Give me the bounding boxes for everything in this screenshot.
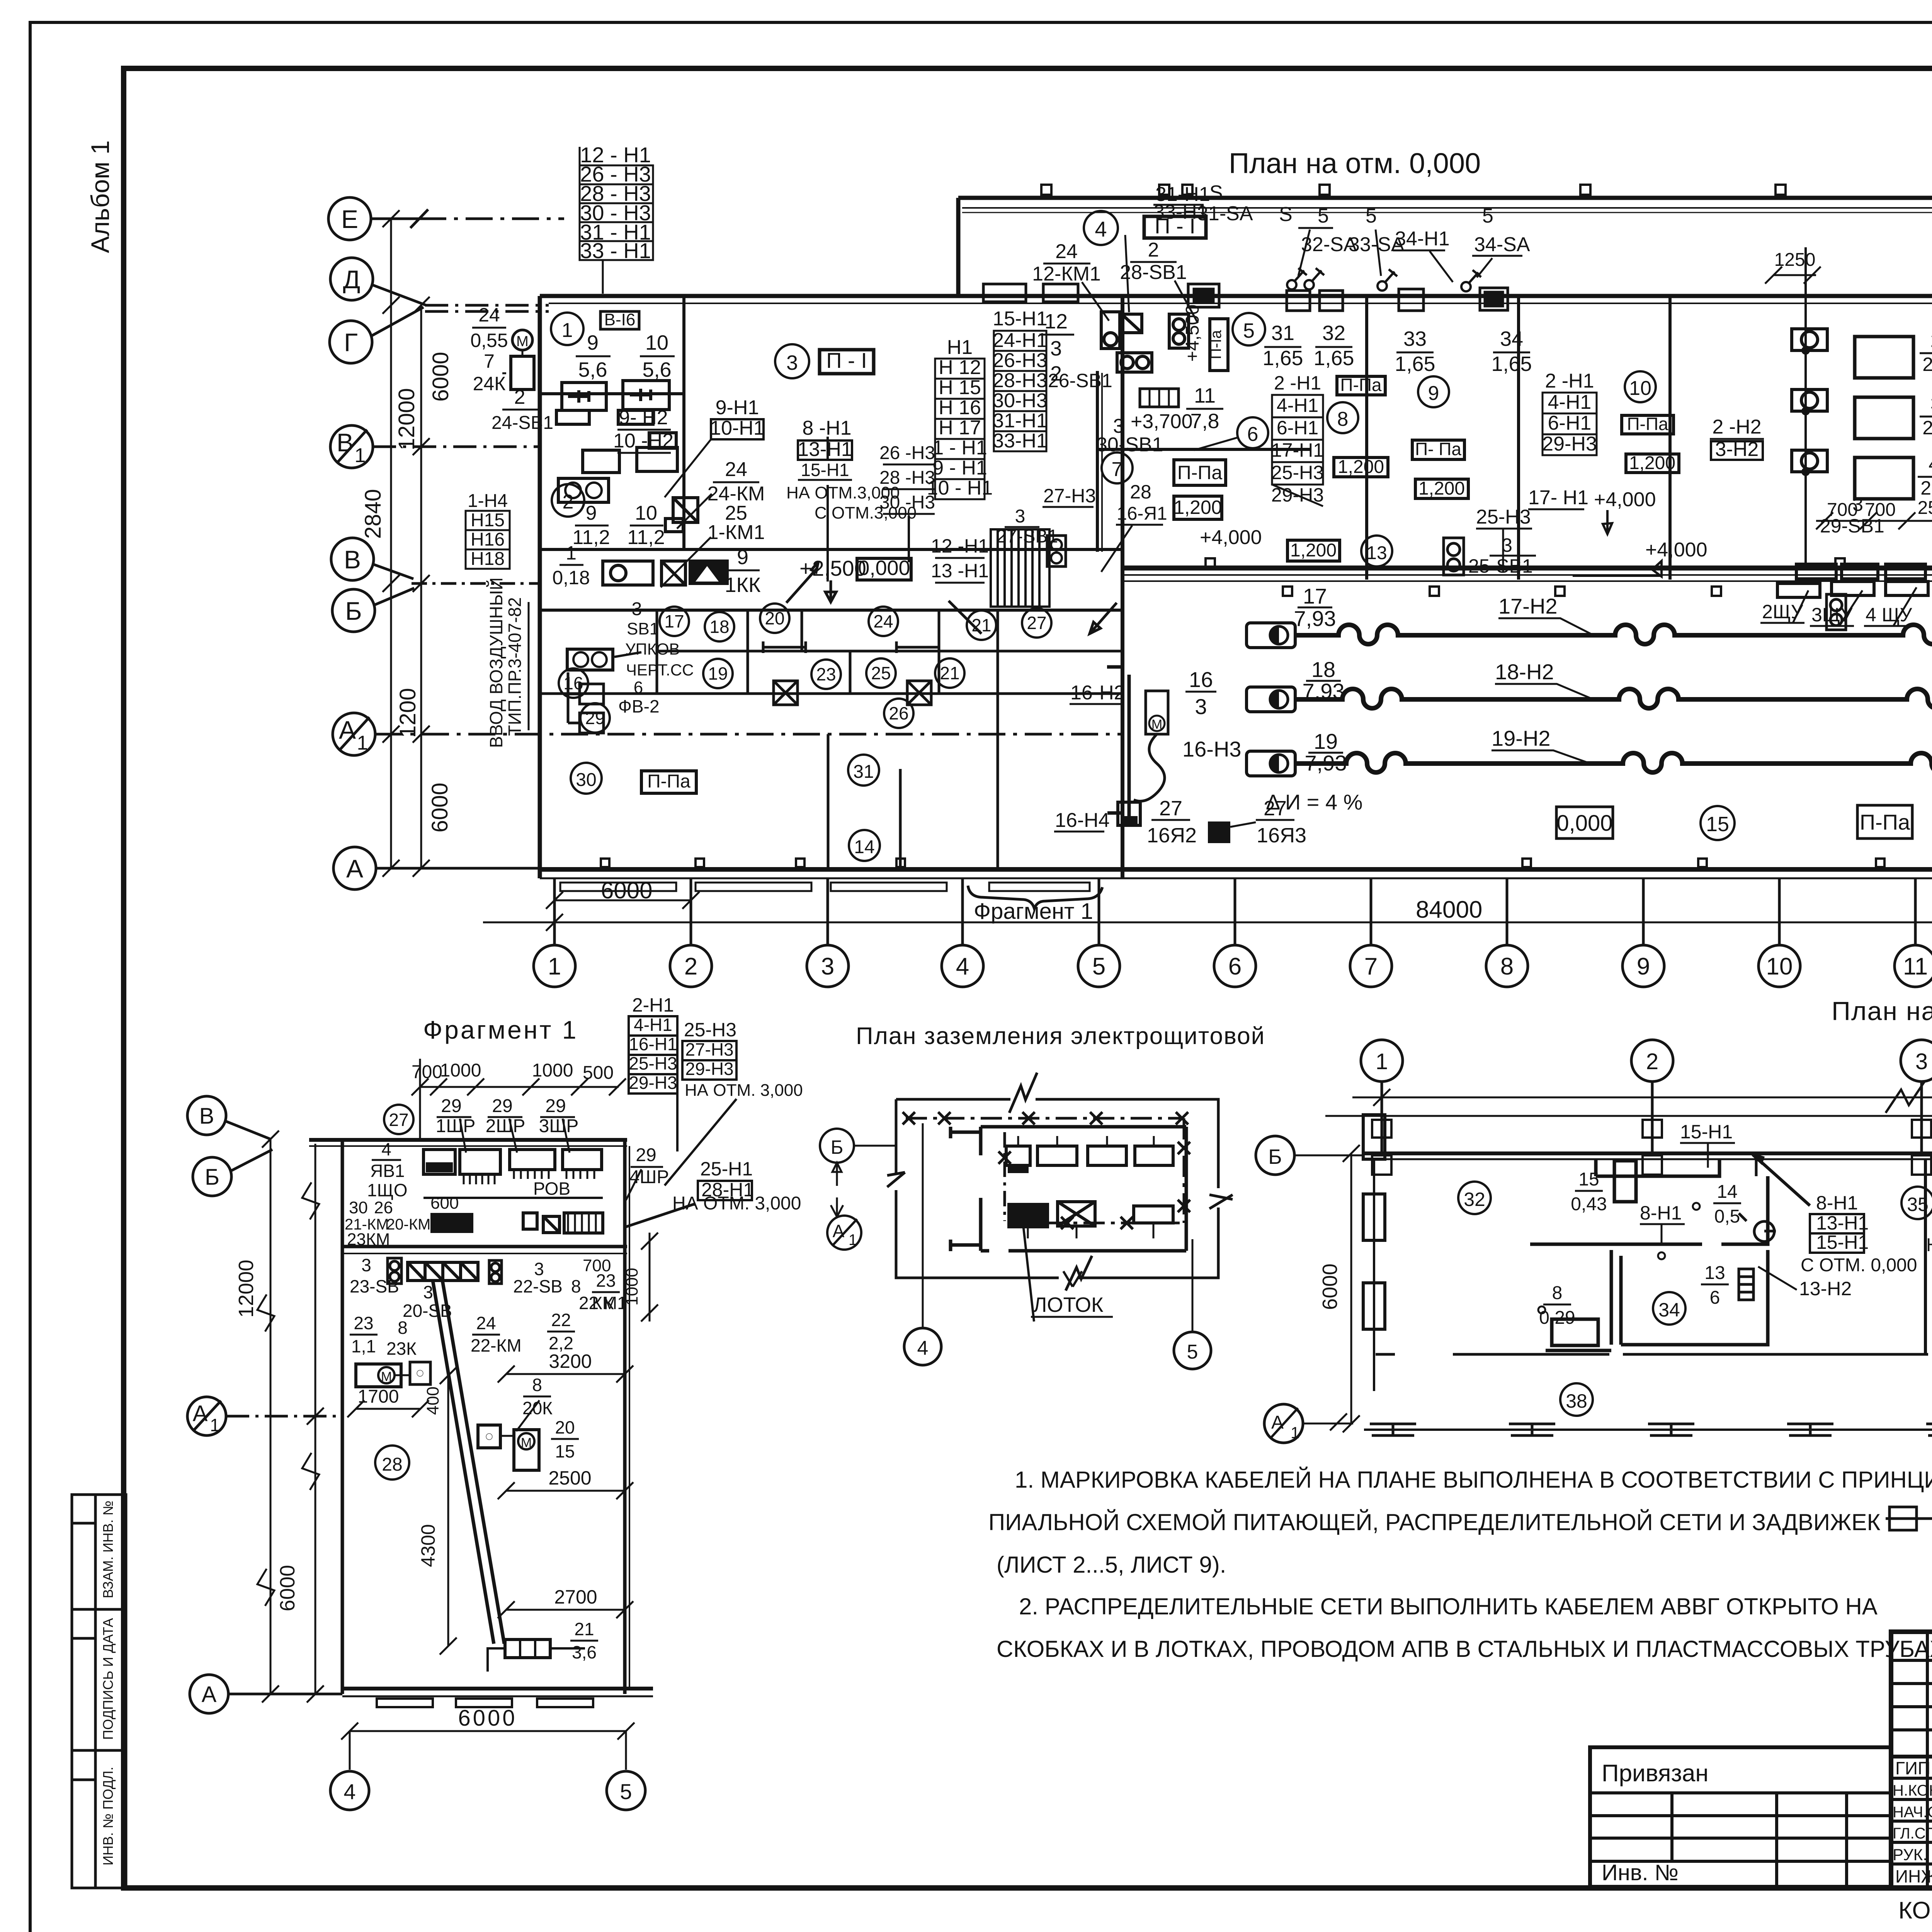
wall: partition x4322: [1668, 296, 1672, 580]
plan3 room 38: [1560, 1383, 1593, 1416]
grounding axis А/1 left: [827, 1216, 861, 1250]
svg-text:9: 9: [737, 546, 748, 569]
1,200 box room8: [1334, 457, 1388, 477]
axis В: [331, 538, 374, 580]
svg-text:4ШР: 4ШР: [629, 1167, 669, 1187]
svg-text:3,6: 3,6: [572, 1642, 597, 1662]
svg-text:1700: 1700: [358, 1386, 399, 1407]
fragment hatch block: [408, 1262, 478, 1281]
svg-text:10: 10: [645, 331, 668, 354]
plan3 lamp symbol: [1739, 1213, 1776, 1242]
svg-text:14: 14: [854, 837, 874, 857]
dim row 700 700 2500: [1827, 496, 1932, 520]
conveyor 17: [1295, 625, 1932, 644]
svg-text:15-Н1: 15-Н1: [993, 308, 1048, 330]
svg-text:29-Н3: 29-Н3: [1542, 433, 1597, 455]
svg-text:1. МАРКИРОВКА КАБЕЛЕЙ НА ПЛАНЕ: 1. МАРКИРОВКА КАБЕЛЕЙ НА ПЛАНЕ ВЫПОЛНЕНА…: [1015, 1467, 1932, 1493]
svg-text:4-Н1: 4-Н1: [1277, 395, 1318, 416]
plan3 Б wall: [1362, 1151, 1932, 1155]
plan3 Б axis circle: [1256, 1136, 1294, 1175]
svg-text:3: 3: [786, 351, 798, 374]
svg-text:В: В: [199, 1104, 214, 1129]
fragment equipment room (top): [423, 1150, 603, 1233]
conveyor labels: [1294, 584, 1347, 775]
room 31: [848, 755, 879, 786]
grounding top row cabinets: [1006, 1136, 1173, 1173]
svg-text:29-Н3: 29-Н3: [685, 1059, 733, 1079]
vertical leaders mid plan: [828, 437, 909, 582]
columns of left section: [1926, 1632, 1929, 1888]
wall: vertical x4983: [1924, 1159, 1927, 1354]
fragment bottom axis circles: [330, 1771, 369, 1810]
svg-text:2: 2: [563, 491, 574, 513]
svg-text:400: 400: [423, 1386, 442, 1415]
svg-text:3: 3: [1852, 493, 1863, 515]
svg-text:П - I: П - I: [1155, 214, 1196, 238]
fractions room 11: [1920, 330, 1932, 499]
svg-text:6000: 6000: [458, 1706, 517, 1731]
fragment bottom dim 6000: [341, 1723, 634, 1770]
svg-text:Н 17: Н 17: [939, 417, 981, 439]
svg-text:5: 5: [1092, 953, 1105, 980]
svg-text:16-Н3: 16-Н3: [1182, 737, 1242, 761]
svg-text:1КК: 1КК: [725, 573, 761, 597]
svg-text:А: А: [202, 1682, 217, 1707]
svg-text:22-SВ: 22-SВ: [513, 1276, 563, 1296]
svg-text:6000: 6000: [427, 782, 452, 832]
svg-text:12 -Н1: 12 -Н1: [931, 535, 989, 557]
svg-text:24: 24: [476, 1313, 496, 1333]
svg-text:Е: Е: [341, 205, 358, 233]
svg-text:700: 700: [583, 1256, 611, 1275]
inner room right wall: [1185, 1127, 1188, 1251]
svg-text:1: 1: [562, 319, 573, 342]
svg-text:27: 27: [1027, 613, 1046, 633]
svg-text:6-Н1: 6-Н1: [1277, 417, 1318, 439]
circle 6: [1237, 417, 1268, 448]
svg-text:+4,000: +4,000: [1645, 539, 1708, 561]
svg-text:2ЩУ: 2ЩУ: [1762, 601, 1803, 622]
svg-text:34: 34: [1500, 327, 1523, 350]
svg-text:ПИАЛЬНОЙ СХЕМОЙ ПИТАЮЩЕЙ, РАСП: ПИАЛЬНОЙ СХЕМОЙ ПИТАЮЩЕЙ, РАСПРЕДЕЛИТЕЛЬ…: [988, 1509, 1880, 1535]
svg-text:29-SВ1: 29-SВ1: [1820, 515, 1884, 537]
svg-text:18-Н2: 18-Н2: [1495, 660, 1554, 684]
title block texts: [1602, 1648, 1932, 1889]
svg-text:0,000: 0,000: [1556, 811, 1612, 836]
fragment bottom connector: [505, 1639, 550, 1658]
svg-text:7: 7: [1112, 458, 1123, 481]
svg-text:10: 10: [635, 502, 657, 524]
svg-text:3: 3: [1502, 534, 1512, 556]
svg-text:25-Н3: 25-Н3: [629, 1053, 677, 1073]
wall: partition room1/3: [682, 296, 685, 549]
svg-text:7,93: 7,93: [1305, 751, 1347, 775]
svg-text:Фрагмент 1: Фрагмент 1: [423, 1015, 578, 1044]
svg-text:Б: Б: [345, 597, 362, 625]
wall: room34 bottom: [1546, 1250, 1768, 1350]
svg-text:М: М: [516, 333, 529, 350]
svg-text:3: 3: [423, 1282, 433, 1302]
svg-text:1: 1: [210, 1415, 220, 1435]
svg-text:27: 27: [1264, 797, 1287, 820]
svg-text:0,18: 0,18: [552, 567, 590, 588]
svg-text:30: 30: [349, 1198, 368, 1217]
svg-text:17: 17: [664, 611, 684, 631]
svg-text:4: 4: [1929, 453, 1932, 475]
svg-text:25-Н1: 25-Н1: [700, 1158, 753, 1180]
svg-text:СКОБКАХ И В ЛОТКАХ, ПРОВОДОМ А: СКОБКАХ И В ЛОТКАХ, ПРОВОДОМ АПВ В СТАЛЬ…: [997, 1636, 1932, 1662]
wall: left outer: [538, 296, 542, 878]
wall: small room partitions row: [656, 610, 658, 694]
svg-text:Н.КОНТР.: Н.КОНТР.: [1893, 1782, 1932, 1799]
plan3 room 32: [1458, 1182, 1491, 1214]
svg-text:Н16: Н16: [471, 529, 505, 550]
svg-text:А: А: [1271, 1412, 1284, 1433]
svg-text:19-Н2: 19-Н2: [1492, 726, 1551, 750]
svg-text:НАЧ.ОТД.: НАЧ.ОТД.: [1893, 1804, 1932, 1821]
svg-text:1000: 1000: [622, 1268, 641, 1306]
svg-text:16: 16: [563, 673, 583, 693]
svg-text:15: 15: [1578, 1169, 1599, 1190]
tick squares along top wall: [1041, 185, 1932, 195]
svg-text:4: 4: [917, 1337, 929, 1359]
svg-text:Н 15: Н 15: [939, 376, 981, 399]
vent units on wall: [983, 284, 1508, 311]
svg-text:9: 9: [1428, 382, 1439, 405]
wall: small top room: [1596, 1159, 1719, 1176]
circle 7: [1102, 452, 1133, 483]
circle 8: [1327, 402, 1358, 433]
svg-text:10: 10: [1629, 377, 1651, 400]
svg-text:13: 13: [1704, 1263, 1725, 1283]
svg-text:1000: 1000: [532, 1060, 573, 1081]
fragment М device + 1700: [356, 1364, 401, 1387]
svg-text:5: 5: [620, 1779, 632, 1804]
svg-text:3: 3: [1930, 393, 1932, 415]
svg-text:24: 24: [1055, 240, 1078, 263]
svg-text:13: 13: [1366, 543, 1387, 563]
svg-text:12000: 12000: [394, 388, 419, 450]
svg-text:25: 25: [871, 663, 891, 683]
plan3 left wall pilasters: [1363, 1115, 1385, 1391]
svg-text:3: 3: [1050, 337, 1062, 360]
svg-text:0,55: 0,55: [470, 330, 508, 351]
conveyor 17 motor box: [1247, 623, 1295, 648]
svg-text:28-Н1: 28-Н1: [701, 1179, 754, 1201]
svg-text:2ШР: 2ШР: [486, 1116, 526, 1136]
svg-text:21: 21: [574, 1619, 594, 1639]
svg-text:24: 24: [873, 611, 893, 631]
svg-text:11: 11: [1903, 953, 1928, 980]
fragment dim 3200 line: [498, 1366, 633, 1383]
fragment top dims: [412, 1060, 614, 1083]
fraction labels 31..34/1,65: [1262, 321, 1532, 376]
svg-text:(ЛИСТ 2...5, ЛИСТ 9).: (ЛИСТ 2...5, ЛИСТ 9).: [997, 1552, 1226, 1578]
svg-text:29: 29: [492, 1096, 512, 1116]
svg-text:План на отм. 3,000: План на отм. 3,000: [1832, 997, 1932, 1026]
inner room top wall: [981, 1125, 1186, 1129]
svg-text:25-Н3: 25-Н3: [1271, 462, 1324, 483]
label stack 15-Н1 column: [993, 308, 1048, 452]
svg-text:16Я2: 16Я2: [1147, 824, 1197, 847]
name rows: [1891, 1755, 1932, 1759]
svg-text:3ШР: 3ШР: [539, 1116, 579, 1136]
svg-text:П-Па: П-Па: [1627, 414, 1668, 434]
heater units room1: [556, 381, 669, 424]
П-IIа box room8: [1337, 376, 1385, 395]
svg-text:2500: 2500: [1918, 498, 1932, 518]
svg-text:13-Н1: 13-Н1: [1816, 1212, 1869, 1234]
fragment circle 28: [375, 1446, 409, 1480]
svg-text:1,200: 1,200: [1290, 540, 1337, 561]
svg-text:38: 38: [1566, 1390, 1587, 1412]
svg-text:А: А: [339, 716, 356, 744]
svg-text:9- Н2: 9- Н2: [619, 406, 668, 429]
bottom dimension lines: [483, 886, 1932, 931]
svg-text:34-Н1: 34-Н1: [1395, 228, 1450, 250]
svg-text:12-КМ1: 12-КМ1: [1032, 263, 1101, 285]
left margin table: [72, 1495, 126, 1888]
room circle 15: [1701, 806, 1735, 840]
labels ЩУ row: [1762, 596, 1932, 626]
svg-text:1: 1: [355, 444, 366, 467]
svg-text:3-Н2: 3-Н2: [1715, 438, 1759, 461]
svg-text:9: 9: [586, 502, 597, 524]
svg-text:1: 1: [849, 1231, 857, 1248]
М device outside left wall: [512, 330, 532, 350]
svg-text:32: 32: [1322, 321, 1345, 345]
svg-text:30 -Н3: 30 -Н3: [879, 492, 935, 513]
inner room bottom wall: [981, 1249, 1186, 1253]
svg-text:8-Н1: 8-Н1: [1816, 1192, 1858, 1214]
circle 1: [551, 313, 583, 345]
svg-text:1ШР: 1ШР: [436, 1116, 476, 1136]
svg-text:23КМ: 23КМ: [347, 1230, 390, 1249]
svg-text:3200: 3200: [549, 1350, 592, 1372]
svg-text:3: 3: [361, 1255, 371, 1275]
label П-IIа box: [1857, 805, 1912, 838]
svg-text:29: 29: [441, 1096, 461, 1116]
axis А/1: [333, 713, 375, 755]
svg-text:ФВ-2: ФВ-2: [618, 696, 660, 716]
plan3 axis circles top: [1361, 1040, 1932, 1153]
svg-text:9: 9: [1637, 953, 1650, 980]
svg-text:0,5: 0,5: [1714, 1206, 1740, 1227]
svg-text:1ЩО: 1ЩО: [367, 1180, 408, 1200]
svg-text:24: 24: [725, 458, 747, 481]
П-IIа box room9: [1412, 440, 1464, 459]
svg-text:15: 15: [1706, 813, 1729, 836]
svg-text:Фрагмент 1: Фрагмент 1: [974, 899, 1093, 924]
grounding inner room walls: [951, 1127, 1186, 1251]
plan3 axis squares on leaders: [1372, 1120, 1932, 1175]
svg-text:А: А: [833, 1221, 845, 1241]
svg-text:84000: 84000: [1416, 896, 1482, 923]
svg-text:0,000: 0,000: [858, 556, 910, 580]
svg-text:6-Н1: 6-Н1: [1548, 412, 1592, 434]
svg-text:28-SВ1: 28-SВ1: [1120, 261, 1187, 284]
svg-text:15-Н1: 15-Н1: [801, 460, 849, 480]
svg-text:П-Па: П-Па: [1177, 462, 1223, 483]
grounding axis Б left: [820, 1129, 854, 1163]
1,200 box room9: [1415, 479, 1468, 498]
stair block hatched: [991, 529, 1049, 607]
svg-text:В-I6: В-I6: [604, 310, 636, 329]
svg-text:3: 3: [1915, 1049, 1928, 1074]
svg-text:16: 16: [1189, 667, 1213, 692]
svg-text:П- Па: П- Па: [1415, 439, 1461, 459]
svg-text:Инв. №: Инв. №: [1602, 1860, 1679, 1885]
svg-text:ВВОД ВОЗДУШНЫЙ: ВВОД ВОЗДУШНЫЙ: [486, 577, 506, 748]
svg-text:Б: Б: [831, 1136, 844, 1158]
svg-text:15: 15: [555, 1441, 575, 1461]
svg-text:5,6: 5,6: [642, 358, 671, 381]
svg-text:14: 14: [1717, 1182, 1737, 1202]
entrance device: [567, 649, 613, 670]
svg-text:SВ1: SВ1: [627, 619, 659, 638]
room 14: [849, 830, 880, 861]
label 0,000 box: [1556, 807, 1613, 838]
svg-text:26: 26: [374, 1198, 393, 1217]
svg-text:М: М: [381, 1369, 392, 1384]
svg-text:28-Н3: 28-Н3: [993, 369, 1048, 392]
svg-text:Б: Б: [205, 1165, 219, 1190]
svg-text:А: А: [193, 1401, 208, 1426]
wall: stub x4545: [1755, 1159, 1758, 1176]
wall: upper strip top: [958, 196, 1932, 200]
svg-text:10 - Н1: 10 - Н1: [927, 477, 993, 499]
svg-text:31-Н1: 31-Н1: [993, 410, 1048, 432]
svg-text:2. РАСПРЕДЕЛИТЕЛЬНЫЕ СЕТИ ВЫПО: 2. РАСПРЕДЕЛИТЕЛЬНЫЕ СЕТИ ВЫПОЛНИТЬ КАБЕ…: [1019, 1594, 1878, 1619]
wall: bottom double: [540, 867, 1932, 872]
label 0,000 box: [857, 558, 911, 580]
svg-text:20К: 20К: [522, 1398, 553, 1418]
plan3 room 35: [1901, 1187, 1932, 1219]
wall: corridor room34 top: [1530, 1176, 1768, 1244]
svg-text:12: 12: [1044, 310, 1068, 333]
svg-text:П-Па: П-Па: [1860, 810, 1910, 834]
fragment axis circles: [187, 1096, 342, 1713]
svg-text:ТИП.ПР.3-407-82: ТИП.ПР.3-407-82: [505, 597, 525, 736]
svg-text:8: 8: [398, 1318, 408, 1338]
svg-text:11,2: 11,2: [627, 526, 665, 549]
svg-text:1,200: 1,200: [1629, 453, 1675, 473]
svg-text:22: 22: [551, 1310, 571, 1330]
axis Д: [330, 258, 373, 300]
X-box device room2: [665, 498, 698, 532]
corridor devices: [603, 561, 727, 585]
svg-text:ЧЕРТ.СС: ЧЕРТ.СС: [626, 661, 694, 679]
room 30: [571, 763, 602, 794]
svg-text:34-SА: 34-SА: [1474, 233, 1530, 256]
label stack Н1 column: [927, 336, 993, 499]
svg-text:УПКОВ: УПКОВ: [625, 640, 680, 658]
svg-text:S: S: [1279, 203, 1293, 226]
svg-text:11: 11: [1194, 384, 1216, 407]
svg-text:24: 24: [478, 304, 500, 326]
inner room left wall pieces: [979, 1127, 983, 1251]
svg-text:ИНВ. № ПОДЛ.: ИНВ. № ПОДЛ.: [100, 1767, 116, 1866]
svg-text:26-Н3: 26-Н3: [993, 349, 1048, 372]
ЩУ boxes under wall: [1777, 580, 1932, 597]
fragment ШР labels: [436, 1096, 669, 1187]
svg-text:29-Н3: 29-Н3: [629, 1073, 677, 1093]
svg-text:+4,000: +4,000: [1594, 488, 1656, 511]
svg-text:33: 33: [1403, 327, 1427, 350]
svg-text:24-Н1: 24-Н1: [993, 329, 1048, 352]
1,200 box room10: [1626, 454, 1679, 473]
svg-text:2700: 2700: [554, 1586, 597, 1608]
plan3 bottom wall row (right part only): [1886, 1488, 1932, 1534]
svg-text:28 -Н3: 28 -Н3: [879, 468, 935, 488]
room2 equipment: [583, 433, 677, 473]
wall: corridor bottom (left block): [540, 609, 1122, 612]
svg-text:2,2: 2,2: [1922, 417, 1932, 439]
svg-text:30: 30: [576, 770, 596, 790]
fragment vertical dims: [257, 1131, 324, 1702]
svg-text:27: 27: [1159, 797, 1182, 820]
svg-text:15-Н1: 15-Н1: [1816, 1231, 1869, 1253]
circle 4 (axis ref on plan): [1084, 211, 1118, 245]
svg-text:П-Iа: П-Iа: [1207, 330, 1225, 359]
small rects row under dims: [1796, 562, 1932, 579]
label stack 1-Н4: [468, 491, 508, 569]
wall: partition x3537: [1365, 296, 1368, 580]
svg-text:1,65: 1,65: [1395, 352, 1435, 376]
svg-text:19: 19: [1314, 729, 1338, 753]
axis Б: [332, 589, 375, 632]
svg-text:В: В: [337, 428, 354, 457]
svg-text:2 -Н1: 2 -Н1: [1274, 372, 1321, 394]
X-box symbols in rooms: [763, 641, 939, 705]
svg-text:8: 8: [1552, 1283, 1563, 1303]
fragment bottom steps: [377, 1699, 593, 1707]
plan3 inner walls left part: [1376, 1159, 1928, 1354]
plan3 room34 equipment: [1552, 1319, 1598, 1345]
svg-text:РУК. ГР.: РУК. ГР.: [1893, 1845, 1932, 1864]
svg-text:1000: 1000: [440, 1060, 481, 1081]
svg-text:10-Н1: 10-Н1: [710, 417, 765, 439]
svg-text:13-Н1: 13-Н1: [798, 438, 852, 461]
svg-text:Альбом 1: Альбом 1: [86, 140, 114, 253]
svg-text:4: 4: [1095, 217, 1107, 241]
svg-text:1: 1: [548, 953, 561, 980]
svg-text:7,93: 7,93: [1303, 679, 1345, 703]
svg-text:7: 7: [484, 350, 495, 372]
svg-text:1-Н4: 1-Н4: [468, 491, 508, 511]
svg-text:Привязан: Привязан: [1602, 1760, 1709, 1787]
svg-text:М: М: [1151, 717, 1162, 732]
svg-text:25-Н3: 25-Н3: [684, 1019, 736, 1041]
arrows at corridor: [786, 561, 1117, 634]
svg-text:5,6: 5,6: [578, 358, 607, 381]
svg-text:1,65: 1,65: [1262, 347, 1303, 370]
svg-text:16-Н4: 16-Н4: [1055, 809, 1110, 832]
svg-text:6: 6: [1710, 1287, 1720, 1308]
svg-text:6000: 6000: [601, 878, 652, 903]
svg-text:П-Па: П-Па: [647, 771, 690, 792]
wall: hall top: [1122, 566, 1932, 571]
svg-text:23: 23: [816, 664, 836, 684]
svg-text:20: 20: [765, 608, 784, 628]
svg-text:20: 20: [555, 1417, 575, 1437]
svg-text:ВЗАМ. ИНВ. №: ВЗАМ. ИНВ. №: [100, 1500, 116, 1598]
svg-text:Н 16: Н 16: [939, 396, 981, 419]
svg-text:19: 19: [708, 663, 728, 684]
wall: upper-left corner drop: [956, 198, 961, 298]
svg-text:10: 10: [1766, 953, 1793, 980]
wall: room34 left: [1610, 1250, 1613, 1345]
